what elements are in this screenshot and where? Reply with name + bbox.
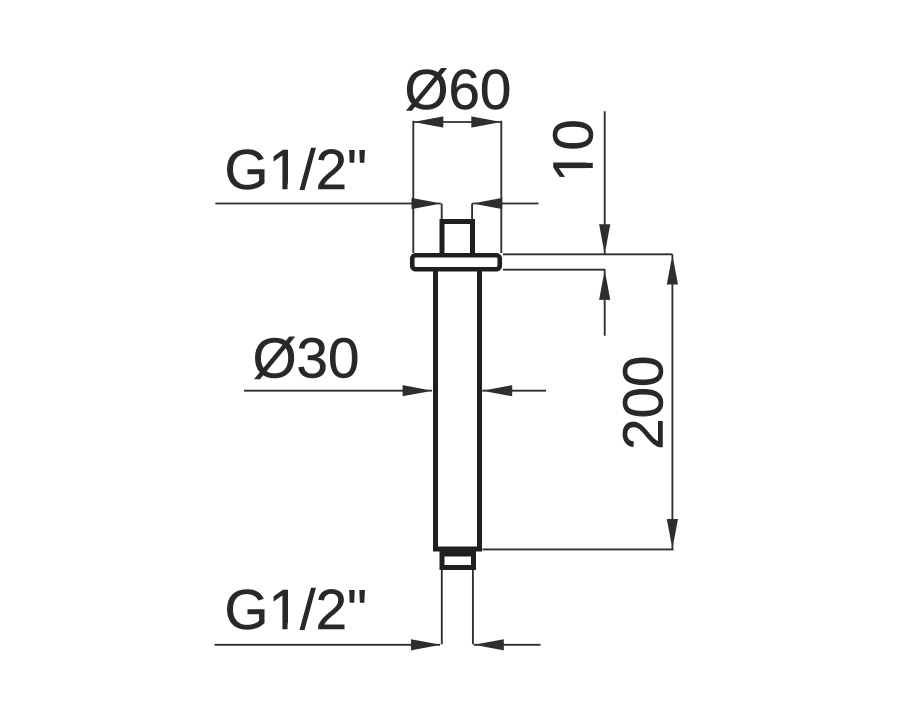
arrowhead thread right (points left) — [472, 198, 502, 209]
arrowhead bottom right (points left) — [474, 639, 504, 650]
shower arm body: ceiling flange — [412, 255, 500, 269]
pointer tail bottom right — [474, 644, 541, 646]
pointer tail right of thread — [472, 203, 538, 205]
extension line thread right — [471, 204, 473, 220]
dimension line 10 upper — [604, 111, 606, 254]
leader line G1/2 top — [215, 203, 440, 205]
extension line bottom thread left — [441, 570, 443, 644]
extension line flange bottom — [503, 269, 605, 271]
arrowhead Ø30 (points right) — [403, 385, 433, 396]
extension line flange right edge — [500, 121, 502, 253]
arrowhead Ø60 right (points right) — [471, 116, 501, 127]
pointer tail right of tube — [482, 390, 546, 392]
svg-text:G1/2": G1/2" — [225, 578, 368, 641]
svg-text:Ø30: Ø30 — [253, 327, 360, 390]
shower arm body: bottom step nut — [442, 554, 474, 568]
arrowhead 10 (points down) — [599, 224, 610, 254]
svg-text:200: 200 — [612, 356, 675, 450]
svg-text:10: 10 — [542, 119, 605, 182]
svg-text:Ø60: Ø60 — [405, 58, 512, 121]
dimension line 10 lower tail — [604, 270, 606, 336]
extension line tube bottom — [483, 548, 674, 550]
extension line flange top (ceiling plane) — [503, 253, 673, 255]
shower arm body: vertical tube — [436, 270, 480, 549]
extension line bottom thread right — [472, 570, 474, 644]
dimension line Ø60 — [413, 121, 501, 123]
leader line G1/2 bottom — [215, 644, 441, 646]
shower arm body: top thread nipple — [442, 222, 473, 257]
arrowhead 10 (points up) — [599, 270, 610, 300]
dimension line 200 — [671, 255, 673, 550]
arrowhead Ø30 right (points left) — [482, 385, 512, 396]
dimension label 10 (rotated) — [542, 119, 605, 182]
svg-text:G1/2": G1/2" — [225, 138, 368, 201]
arrowhead G1/2 bottom (points right) — [411, 639, 441, 650]
serif mask bottom label — [271, 623, 298, 630]
leader line Ø30 — [244, 390, 432, 392]
arrowhead G1/2 top (points right) — [412, 198, 442, 209]
arrowhead Ø60 left (points left) — [413, 116, 443, 127]
arrowhead 200 bottom (points down) — [667, 519, 678, 549]
serif mask top label — [271, 184, 298, 191]
arrowhead 200 top (points up) — [667, 255, 678, 285]
extension line flange left edge — [412, 121, 414, 253]
extension line thread left — [441, 204, 443, 220]
